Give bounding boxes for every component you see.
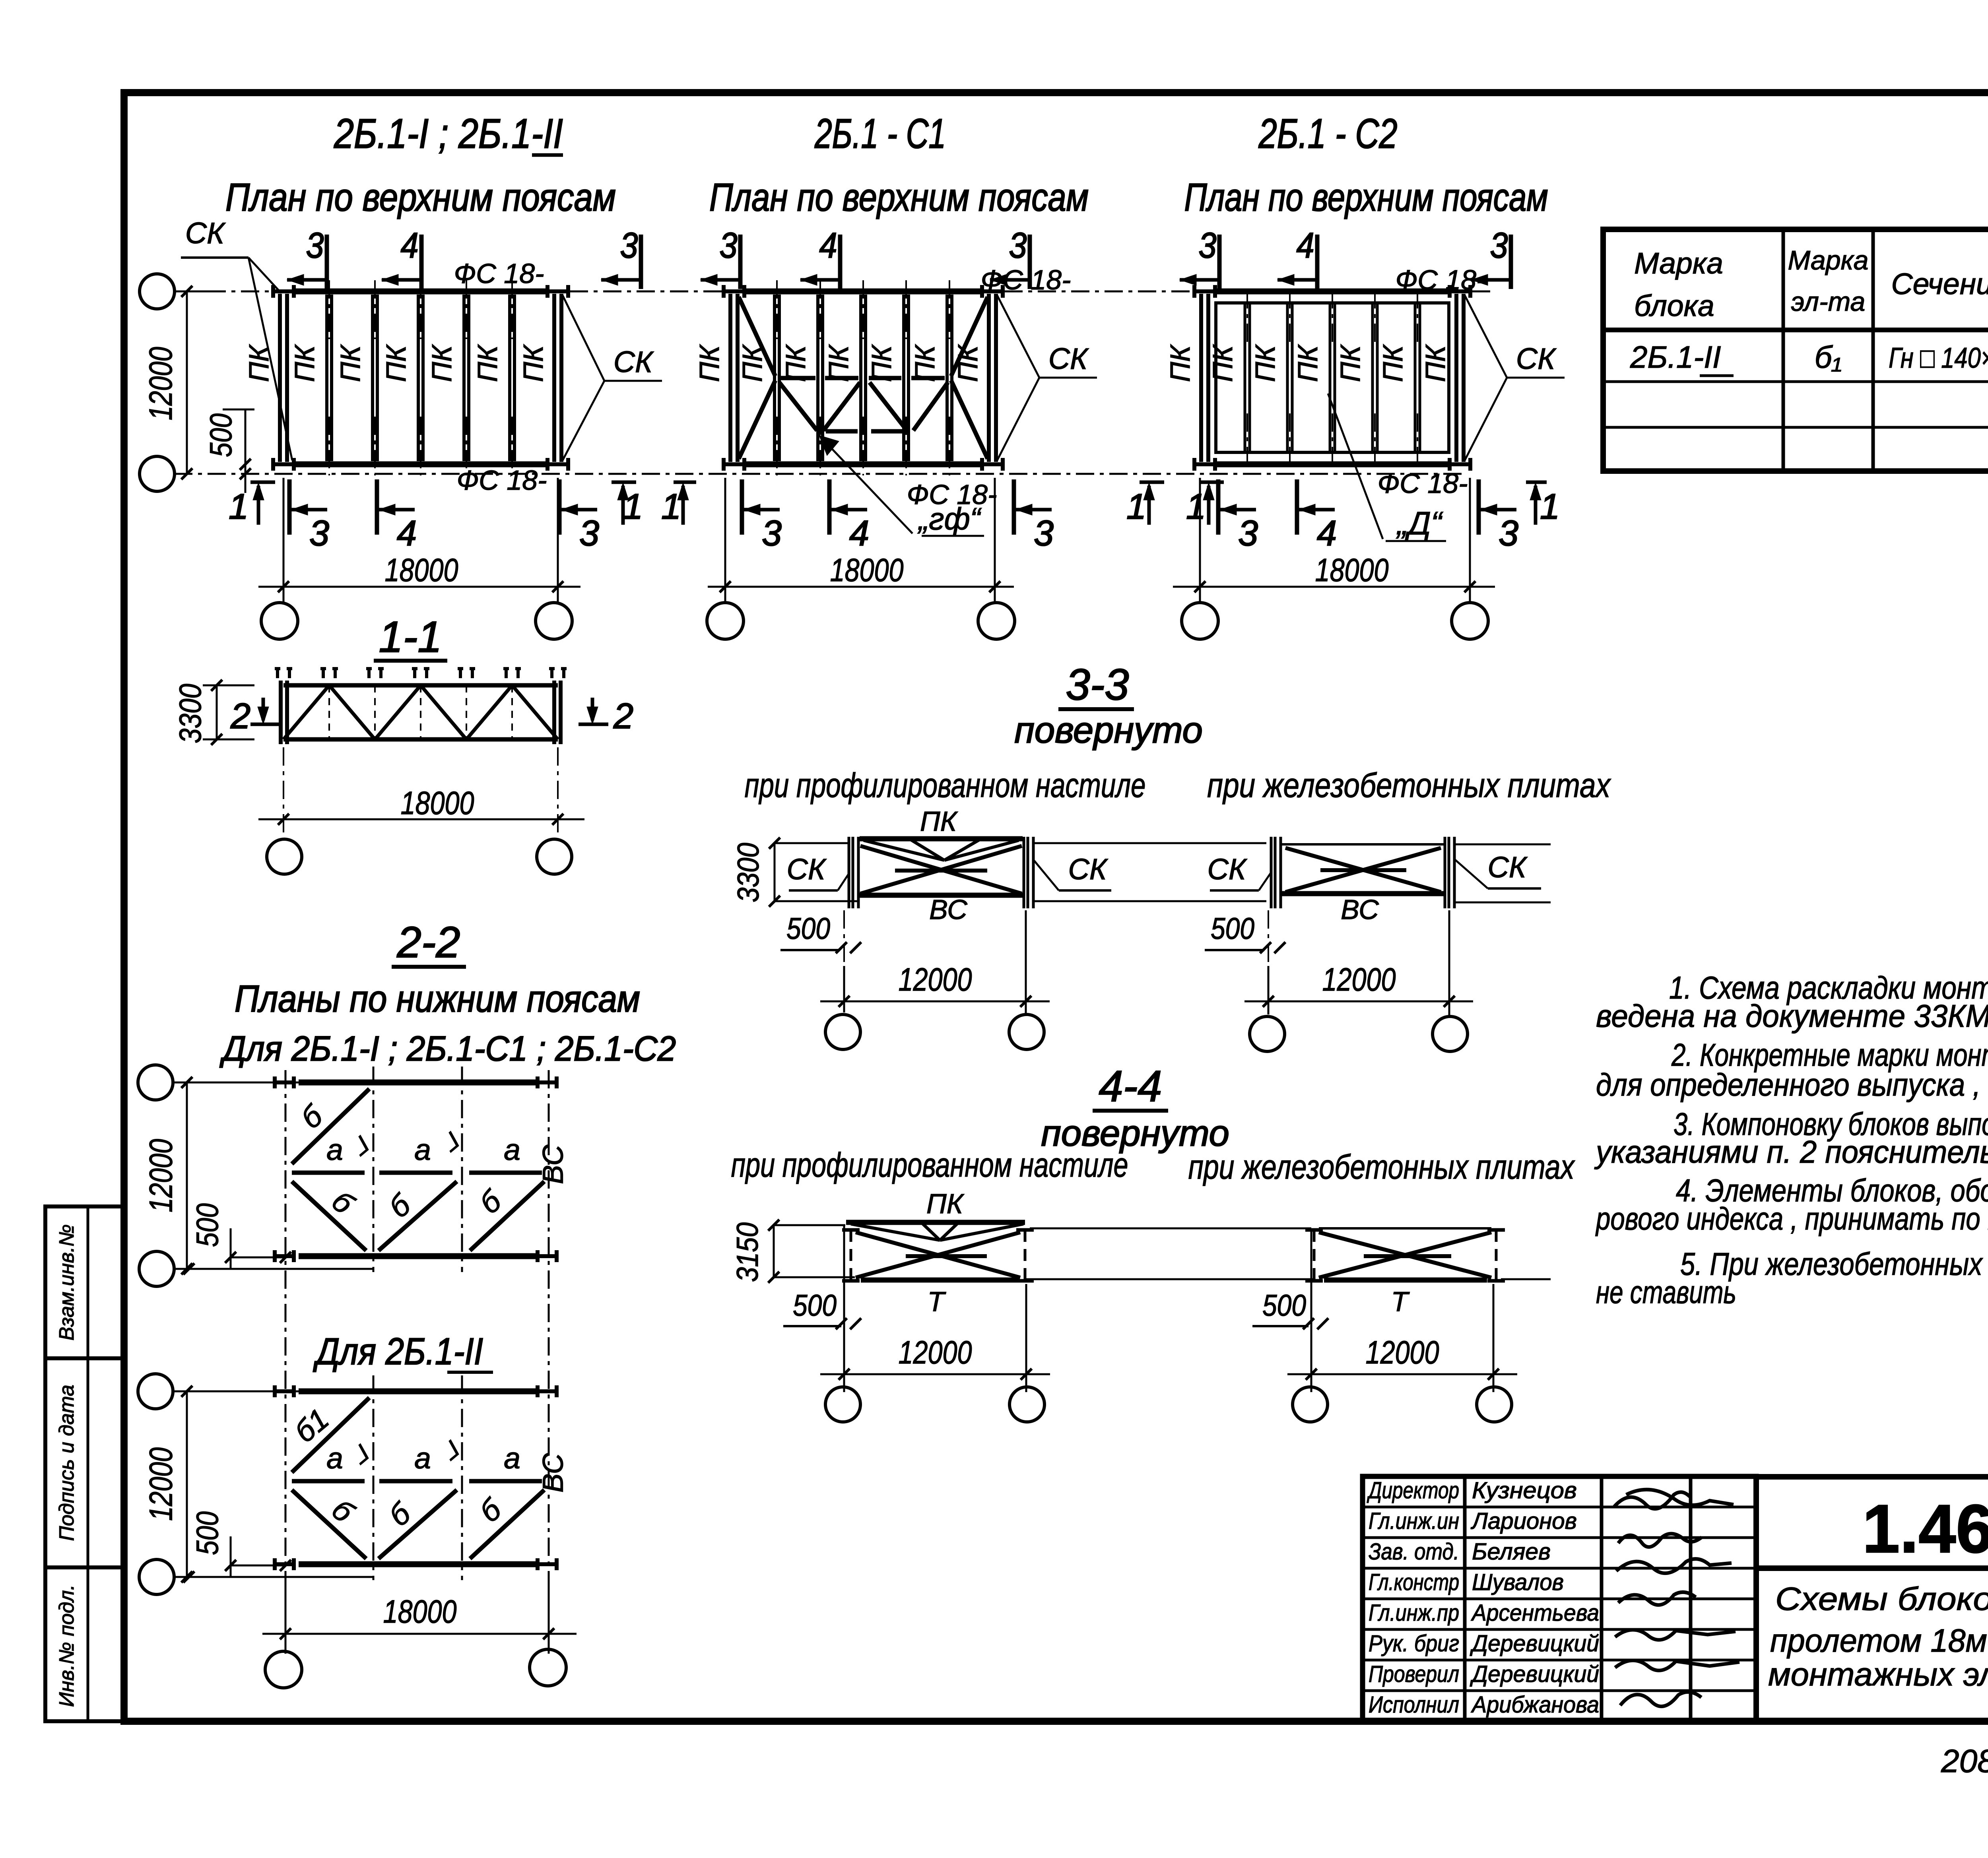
svg-text:12000: 12000	[1366, 1334, 1439, 1371]
2-2 plan for 2Б.1-II end mark	[275, 1562, 294, 1566]
section mark 3 (bottom)	[557, 479, 562, 535]
plan B purlin ПК4	[902, 295, 905, 461]
svg-text:СК: СК	[1207, 853, 1247, 886]
section mark 3 (top)	[1217, 235, 1222, 289]
plan A bottom chord ФС	[294, 462, 547, 467]
section mark 4 (top)	[838, 235, 843, 289]
svg-text:Арибжанова: Арибжанова	[1471, 1692, 1599, 1718]
3-3R mid brace	[1320, 868, 1406, 872]
svg-text:СК: СК	[185, 216, 226, 250]
svg-text:СК: СК	[1516, 342, 1557, 375]
3-3 right dim 12000	[1244, 1001, 1473, 1003]
svg-text:а: а	[326, 1441, 343, 1475]
plan B lower horizontal braces	[826, 429, 858, 434]
sidebar box Подпись и дата	[45, 1358, 124, 1567]
svg-text:Директор: Директор	[1367, 1478, 1459, 1503]
grid circle A top-left	[140, 274, 175, 309]
svg-text:3: 3	[1034, 514, 1054, 553]
3-3R X braces	[1285, 848, 1441, 892]
svg-text:а: а	[414, 1441, 431, 1475]
4-4R top line	[1319, 1227, 1491, 1230]
svg-text:12000: 12000	[899, 1334, 972, 1371]
svg-text:Ларионов: Ларионов	[1470, 1508, 1577, 1534]
4-4R post left	[1313, 1230, 1316, 1281]
2-2 plan for 2Б.1-II axis vertical	[461, 1375, 463, 1580]
plan C slab joint 2	[1286, 304, 1289, 451]
4-4L dim 3150	[773, 1225, 775, 1277]
table of assembly elements	[1603, 229, 1988, 471]
2-2 dim 18000	[262, 1633, 577, 1635]
4-4L post left	[850, 1230, 852, 1281]
2-2 plan for 2Б.1-I,С1,С2 end mark	[275, 1080, 294, 1084]
section mark 3 (top)	[1509, 235, 1513, 289]
svg-text:а: а	[504, 1441, 520, 1475]
section mark 3 (top)	[639, 235, 643, 289]
svg-text:пролетом 18м и таблица: пролетом 18м и таблица	[1770, 1623, 1988, 1659]
table column line	[1872, 229, 1875, 471]
svg-text:ПК: ПК	[1207, 344, 1238, 382]
svg-text:1-1: 1-1	[379, 613, 442, 661]
signature table row line	[1363, 1598, 1756, 1600]
svg-text:2Б.1-II: 2Б.1-II	[1630, 339, 1721, 374]
svg-text:Деревицкий: Деревицкий	[1470, 1631, 1599, 1656]
svg-text:ПК: ПК	[1250, 344, 1281, 382]
2-2 plan for 2Б.1-II diagonal braces б	[292, 1490, 366, 1559]
sidebar box Инв.№ подл.	[45, 1567, 124, 1721]
svg-text:ПК: ПК	[335, 344, 366, 382]
svg-text:ПК: ПК	[472, 344, 503, 382]
2-2 plan for 2Б.1-II dim 12000 line	[186, 1391, 188, 1577]
svg-text:2Б.1 - С1: 2Б.1 - С1	[814, 111, 946, 157]
section mark 3 (bottom)	[1012, 479, 1016, 535]
svg-text:Гн □ 140×4: Гн □ 140×4	[1889, 342, 1988, 374]
svg-text:Исполнил: Исполнил	[1369, 1692, 1459, 1718]
svg-text:Кузнецов: Кузнецов	[1472, 1478, 1577, 1503]
plan A right end post СК	[552, 294, 556, 462]
grid circle 2-2 bottom left	[265, 1651, 302, 1688]
svg-text:1: 1	[623, 487, 643, 527]
2-2 plan for 2Б.1-I,С1,С2 diagonal braces б	[292, 1181, 366, 1251]
signature table column	[1689, 1476, 1693, 1721]
svg-text:Гл.констр: Гл.констр	[1369, 1569, 1459, 1595]
plan B bracing wedge left	[739, 297, 775, 376]
svg-text:3150: 3150	[731, 1222, 765, 1282]
plan A top chord ФС	[294, 289, 547, 295]
svg-text:ПК: ПК	[926, 1188, 965, 1219]
table row line 2	[1603, 426, 1988, 429]
4-4 left circle left	[825, 1387, 860, 1422]
svg-text:ПК: ПК	[1377, 344, 1408, 382]
svg-text:3: 3	[1199, 226, 1217, 266]
svg-text:Подпись и дата: Подпись и дата	[55, 1385, 78, 1541]
grid circle 1-1 right	[537, 839, 572, 874]
svg-text:1: 1	[1126, 487, 1146, 527]
section 1 mark left of plan C	[1199, 481, 1224, 484]
svg-text:Проверил: Проверил	[1369, 1661, 1459, 1687]
4-4L X braces	[856, 1232, 1020, 1278]
svg-text:ФС 18-: ФС 18-	[457, 465, 547, 496]
2-2 plan for 2Б.1-II horizontal braces а	[292, 1479, 365, 1484]
plan A group: 2Б.1-I ; 2Б.1-II	[140, 111, 1467, 639]
svg-text:ПК: ПК	[694, 344, 725, 382]
bottom grid axis line	[174, 473, 1467, 475]
top axis beyond plan C	[1472, 291, 1493, 293]
signature table row line	[1363, 1689, 1756, 1692]
3-3 left column СК-2	[1023, 837, 1025, 908]
svg-text:ПК: ПК	[920, 806, 958, 837]
svg-text:Деревицкий: Деревицкий	[1470, 1661, 1599, 1687]
svg-text:500: 500	[203, 413, 238, 457]
svg-text:СК: СК	[1068, 853, 1108, 886]
svg-text:3: 3	[579, 514, 599, 553]
svg-text:Для 2Б.1-II: Для 2Б.1-II	[313, 1330, 483, 1373]
plan A dim 18000	[258, 586, 580, 588]
top axis between plan B and C	[1004, 291, 1200, 293]
svg-text:Схемы блоков 2Б.1: Схемы блоков 2Б.1	[1775, 1581, 1988, 1617]
svg-text:ПК: ПК	[1335, 344, 1366, 382]
4-4L axis stubs	[774, 1224, 845, 1226]
svg-text:б₁: б₁	[1815, 339, 1842, 374]
3-3L X braces	[860, 846, 1022, 894]
svg-text:12000: 12000	[143, 1139, 179, 1212]
section 4-4 group	[731, 1062, 1575, 1422]
plan B bottom chord ФС	[744, 462, 982, 467]
4-4R X braces	[1319, 1232, 1491, 1278]
svg-text:ПК: ПК	[1165, 344, 1196, 382]
signature table row line	[1363, 1567, 1756, 1570]
3-3R top line	[1282, 843, 1444, 846]
svg-text:эл-та: эл-та	[1791, 287, 1866, 317]
svg-text:3: 3	[620, 226, 638, 266]
svg-text:а: а	[414, 1133, 431, 1166]
svg-text:4: 4	[1297, 226, 1314, 266]
svg-text:Взам.инв.№: Взам.инв.№	[55, 1224, 78, 1341]
signature strokes	[1614, 1490, 1739, 1706]
grid circle plan B bottom-1	[707, 603, 744, 639]
3-3L mid brace	[895, 869, 987, 873]
svg-text:Марка: Марка	[1788, 245, 1869, 275]
3-3R bottom chord ВС	[1282, 891, 1444, 896]
svg-text:План по верхним поясам: План по верхним поясам	[225, 175, 616, 219]
svg-text:2-2: 2-2	[397, 918, 460, 967]
svg-text:Зав. отд.: Зав. отд.	[1369, 1539, 1459, 1565]
1-1 section mark 2 right	[591, 698, 594, 720]
svg-text:4: 4	[849, 514, 869, 553]
svg-text:12000: 12000	[143, 347, 179, 421]
svg-text:3: 3	[1499, 514, 1518, 553]
grid circle plan A bottom-1	[261, 603, 298, 639]
1-1 top chord connector marks	[275, 667, 280, 670]
svg-text:4: 4	[1317, 514, 1337, 553]
svg-text:ФС 18-: ФС 18-	[454, 258, 544, 289]
plan B СК callout right	[997, 295, 1039, 378]
plan B purlin ПК3	[859, 295, 862, 461]
svg-text:18000: 18000	[385, 552, 458, 588]
plan C slab joint 5	[1414, 304, 1417, 451]
signature table row line	[1363, 1536, 1756, 1539]
svg-text:Марка: Марка	[1634, 246, 1723, 280]
svg-text:500: 500	[786, 912, 830, 946]
2-2 plan for 2Б.1-I,С1,С2 horizontal braces а	[292, 1171, 365, 1175]
svg-text:ВС: ВС	[538, 1144, 569, 1184]
svg-text:4: 4	[819, 226, 837, 266]
1-1 dim 3300	[216, 685, 218, 739]
svg-text:4: 4	[397, 514, 417, 553]
plan C group: 2Б.1-С2	[1126, 111, 1565, 639]
section 1 mark left of plan A	[250, 481, 275, 484]
svg-text:3: 3	[762, 514, 782, 553]
grid circle 1-1 left	[267, 839, 302, 874]
svg-text:„Д“: „Д“	[1396, 505, 1443, 541]
svg-text:Шувалов: Шувалов	[1472, 1569, 1564, 1595]
table outer border	[1603, 229, 1988, 471]
top axis line to circle A	[174, 291, 272, 293]
section 1 mark right of plan A	[612, 481, 636, 484]
svg-text:500: 500	[190, 1203, 225, 1247]
4-4 right dim 12000	[1287, 1373, 1517, 1375]
plan C slab joint 3	[1329, 304, 1332, 451]
svg-text:СК: СК	[1048, 342, 1089, 375]
svg-text:при профилированном настиле: при профилированном настиле	[731, 1146, 1128, 1184]
4-4L deck fan braces	[851, 1224, 940, 1240]
plan C leader Д	[1328, 394, 1383, 539]
2-2 plan for 2Б.1-I,С1,С2 left circles and dims	[138, 1065, 173, 1100]
svg-text:СК: СК	[1487, 851, 1528, 884]
svg-text:а: а	[326, 1133, 343, 1166]
svg-text:блока: блока	[1634, 289, 1714, 322]
title block group	[1363, 1476, 1988, 1779]
table row line 1	[1603, 380, 1988, 383]
2-2 plan for 2Б.1-II diagonal brace б1/б top-left	[292, 1398, 369, 1472]
svg-text:18000: 18000	[830, 552, 904, 588]
svg-text:4: 4	[401, 226, 419, 266]
svg-text:2Б.1 - С2: 2Б.1 - С2	[1258, 111, 1398, 157]
svg-text:12000: 12000	[1322, 962, 1396, 998]
plan B group: 2Б.1-С1	[661, 111, 1200, 639]
section 1 mark right of plan B	[1140, 481, 1164, 484]
4-4L mid brace	[906, 1254, 987, 1258]
plan C bottom chord ФС	[1215, 462, 1450, 467]
notes group	[1594, 970, 1988, 1310]
2-2 plan for 2Б.1-I,С1,С2 diagonal brace б1/б top-left	[292, 1089, 369, 1164]
grid circle plan A bottom-2	[536, 603, 572, 639]
table column line	[1782, 229, 1785, 471]
2-2 plan for 2Б.1-I,С1,С2 axis vertical	[461, 1067, 463, 1272]
section mark 4 (top)	[419, 235, 424, 289]
svg-text:Планы по нижним поясам: Планы по нижним поясам	[235, 978, 640, 1020]
1-1 web members	[283, 685, 329, 739]
svg-text:СК: СК	[613, 345, 654, 378]
section mark 3 (bottom)	[1216, 479, 1221, 535]
3-3 right column СК-2	[1444, 837, 1446, 908]
3-3 axis stubs right	[1455, 844, 1551, 846]
svg-text:при профилированном настиле: при профилированном настиле	[745, 766, 1146, 805]
grid circle A bottom-left	[140, 456, 175, 491]
3-3 axis line between diagrams	[1034, 842, 1266, 844]
3-3L dim 3300	[774, 843, 776, 901]
4-4R 500 dim and verticals	[1310, 1232, 1312, 1392]
plan B lower zigzag braces	[779, 382, 817, 431]
svg-text:18000: 18000	[401, 785, 474, 821]
title block: document number box	[1756, 1477, 1988, 1568]
plan C slab field outline	[1216, 303, 1449, 452]
svg-text:2Б.1-I ; 2Б.1-II: 2Б.1-I ; 2Б.1-II	[334, 111, 563, 157]
2-2 plan for 2Б.1-II top chord	[299, 1389, 540, 1394]
4-4L post right	[1024, 1230, 1027, 1281]
plan C slab joint 4	[1371, 304, 1374, 451]
section mark 3 (top)	[1028, 235, 1032, 289]
2-2 plan for 2Б.1-II left circles and dims	[138, 1374, 173, 1409]
3-3L bottom chord ВС	[860, 893, 1023, 898]
svg-text:ПК: ПК	[381, 344, 412, 382]
section mark 4 (bottom)	[827, 479, 832, 535]
svg-text:3: 3	[306, 226, 324, 266]
plan B mid horizontal braces	[781, 376, 815, 380]
svg-text:Для 2Б.1-I ; 2Б.1-С1 ; 2Б.1-С2: Для 2Б.1-I ; 2Б.1-С1 ; 2Б.1-С2	[219, 1029, 676, 1068]
2-2 plan for 2Б.1-I,С1,С2 end mark	[538, 1254, 557, 1258]
svg-text:20861: 20861	[1941, 1743, 1988, 1779]
signature table row line	[1363, 1659, 1756, 1662]
section mark 3 (top)	[325, 235, 329, 289]
svg-text:ПК: ПК	[1292, 344, 1323, 382]
4-4L top chord ПК	[846, 1220, 1025, 1225]
4-4 axis line between diagrams	[1030, 1228, 1311, 1230]
svg-text:3300: 3300	[173, 684, 208, 743]
svg-text:1: 1	[661, 487, 681, 527]
svg-text:План по верхним поясам: План по верхним поясам	[709, 175, 1089, 219]
plan A dim 500	[245, 409, 247, 493]
plan A purlin ПК3	[417, 295, 420, 461]
2-2 plan for 2Б.1-I,С1,С2 top chord	[299, 1080, 540, 1086]
svg-text:Сечение: Сечение	[1891, 267, 1988, 301]
svg-text:3: 3	[1490, 226, 1508, 266]
section mark 3 (bottom)	[1477, 479, 1481, 535]
section mark 3 (bottom)	[287, 479, 292, 535]
svg-text:не ставить: не ставить	[1596, 1274, 1736, 1310]
svg-text:12000: 12000	[899, 962, 972, 998]
4-4 right circle right	[1477, 1387, 1512, 1422]
4-4 left dim 12000	[820, 1373, 1050, 1375]
plan C left end post	[1199, 294, 1203, 462]
sidebar box Взам.инв.№	[45, 1206, 124, 1358]
plan B left end post	[728, 294, 732, 462]
signature table border	[1363, 1476, 1756, 1721]
3-3L axis stubs	[775, 842, 848, 844]
svg-text:1: 1	[1540, 487, 1560, 527]
plan B dim 18000	[708, 586, 1014, 588]
svg-text:Гл.инж.ин: Гл.инж.ин	[1369, 1508, 1459, 1534]
3-3 right circle left	[1250, 1016, 1285, 1051]
2-2 plan for 2Б.1-II axis vertical	[373, 1375, 375, 1580]
svg-text:ФС 18-: ФС 18-	[1378, 468, 1468, 499]
svg-text:Арсентьева: Арсентьева	[1471, 1600, 1599, 1626]
2-2 plan for 2Б.1-I,С1,С2 end mark	[275, 1254, 294, 1258]
section mark 4 (top)	[1315, 235, 1320, 289]
2-2 plan for 2Б.1-II end mark	[538, 1562, 557, 1566]
plan A purlin ПК1	[325, 295, 328, 461]
4-4L 500 dim and verticals	[843, 1225, 845, 1392]
4-4R mid brace	[1364, 1254, 1451, 1258]
2-2 plan for 2Б.1-II end mark	[538, 1389, 557, 1393]
svg-text:3300: 3300	[732, 843, 765, 902]
plan B top chord ФС	[744, 289, 982, 295]
title block: lower part divider	[1756, 1568, 1988, 1721]
grid circle plan C bottom-1	[1182, 603, 1218, 639]
3-3 left dim 12000	[820, 1001, 1050, 1003]
section 2-2 group	[138, 918, 676, 1688]
grid circle 2-2 bottom right	[530, 1649, 566, 1686]
svg-text:ВС: ВС	[1341, 894, 1379, 925]
svg-text:1: 1	[1186, 487, 1206, 527]
svg-text:500: 500	[190, 1511, 225, 1555]
svg-text:4-4: 4-4	[1099, 1062, 1162, 1111]
svg-text:ПК: ПК	[289, 344, 320, 382]
svg-text:при железобетонных плитах: при железобетонных плитах	[1207, 766, 1611, 805]
svg-text:500: 500	[793, 1289, 837, 1323]
section 3-3 group	[732, 660, 1611, 1051]
svg-text:повернуто: повернуто	[1014, 710, 1203, 751]
2-2 grid axis vertical left	[285, 1070, 287, 1646]
svg-text:3: 3	[720, 226, 738, 266]
svg-text:СК: СК	[786, 853, 827, 886]
svg-text:18000: 18000	[383, 1594, 457, 1630]
1-1 left bearing	[279, 681, 283, 744]
svg-text:500: 500	[1262, 1289, 1306, 1323]
3-3L top chord ПК	[860, 836, 1023, 842]
plan B right end post	[987, 294, 991, 462]
3-3L axis verticals down	[843, 910, 845, 966]
2-2 plan for 2Б.1-I,С1,С2 dim 500	[231, 1257, 285, 1259]
plan A dim 12000 left	[186, 291, 188, 474]
svg-text:для определенного выпуска ,: для определенного выпуска , приведены на…	[1596, 1067, 1988, 1102]
section 1 mark right of plan C	[1526, 481, 1547, 484]
svg-text:12000: 12000	[143, 1447, 179, 1521]
signature table row line	[1363, 1506, 1756, 1509]
2-2 plan for 2Б.1-I,С1,С2 end mark	[538, 1080, 557, 1084]
svg-text:500: 500	[1211, 912, 1254, 946]
1-1 dim 18000	[283, 747, 284, 837]
svg-text:Инв.№ подл.: Инв.№ подл.	[55, 1585, 78, 1707]
svg-text:ПК: ПК	[518, 344, 549, 382]
3-3 left circle left	[825, 1014, 860, 1049]
2-2 plan for 2Б.1-II dim 500	[231, 1565, 285, 1567]
svg-text:3: 3	[1238, 514, 1258, 553]
plan C СК callout right	[1465, 295, 1507, 378]
plan C right end post	[1454, 294, 1458, 462]
3-3 left circle right	[1009, 1014, 1044, 1049]
section mark 4 (bottom)	[1295, 479, 1299, 535]
svg-text:„гф“: „гф“	[917, 501, 982, 536]
svg-text:1.460.3-19-35 КМ: 1.460.3-19-35 КМ	[1862, 1491, 1988, 1567]
grid circle plan C bottom-2	[1452, 603, 1488, 639]
plan B purlin ПК5	[945, 295, 949, 461]
plan C dim 18000	[1173, 586, 1495, 588]
svg-text:Т: Т	[928, 1286, 946, 1317]
svg-text:2: 2	[230, 696, 250, 736]
svg-text:2: 2	[613, 696, 633, 736]
2-2 plan for 2Б.1-II end mark	[275, 1389, 294, 1393]
3-3 left column СК-1	[848, 837, 850, 908]
svg-text:при железобетонных плитах: при железобетонных плитах	[1188, 1148, 1575, 1186]
1-1 top chord	[283, 683, 558, 688]
svg-text:Гл.инж.пр: Гл.инж.пр	[1369, 1600, 1459, 1626]
4-4R post right	[1495, 1230, 1498, 1281]
svg-text:ПК: ПК	[1420, 344, 1451, 382]
section 1 mark left of plan B	[674, 481, 696, 484]
signature table column	[1463, 1476, 1467, 1721]
2-2 plan for 2Б.1-I,С1,С2 axis vertical	[373, 1067, 375, 1272]
plan A СК callout right	[563, 295, 604, 381]
